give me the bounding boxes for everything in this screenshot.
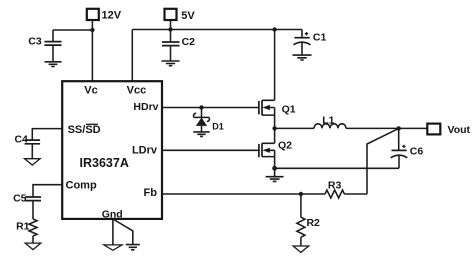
- svg-text:R1: R1: [16, 221, 30, 233]
- svg-text:Vcc: Vcc: [127, 85, 147, 97]
- svg-text:LDrv: LDrv: [132, 144, 158, 156]
- svg-text:C1: C1: [313, 31, 327, 43]
- svg-text:L1: L1: [322, 114, 334, 126]
- svg-text:Vc: Vc: [84, 85, 97, 97]
- svg-text:R3: R3: [328, 180, 342, 192]
- svg-text:12V: 12V: [102, 9, 122, 21]
- svg-text:D1: D1: [212, 121, 224, 131]
- svg-text:C3: C3: [28, 36, 42, 48]
- svg-text:Q2: Q2: [278, 140, 292, 152]
- svg-text:Vout: Vout: [448, 124, 471, 136]
- svg-text:C4: C4: [14, 134, 28, 146]
- svg-text:5V: 5V: [181, 10, 195, 22]
- svg-text:HDrv: HDrv: [133, 101, 158, 113]
- svg-text:R2: R2: [306, 217, 320, 229]
- svg-text:Comp: Comp: [66, 180, 97, 192]
- svg-text:Fb: Fb: [144, 187, 158, 199]
- svg-text:Q1: Q1: [282, 103, 296, 115]
- svg-text:SS/SD: SS/SD: [68, 124, 101, 136]
- svg-text:C2: C2: [182, 36, 196, 48]
- svg-text:C6: C6: [410, 145, 424, 157]
- svg-text:IR3637A: IR3637A: [80, 156, 129, 170]
- svg-text:C5: C5: [13, 193, 27, 205]
- svg-text:Gnd: Gnd: [102, 209, 123, 221]
